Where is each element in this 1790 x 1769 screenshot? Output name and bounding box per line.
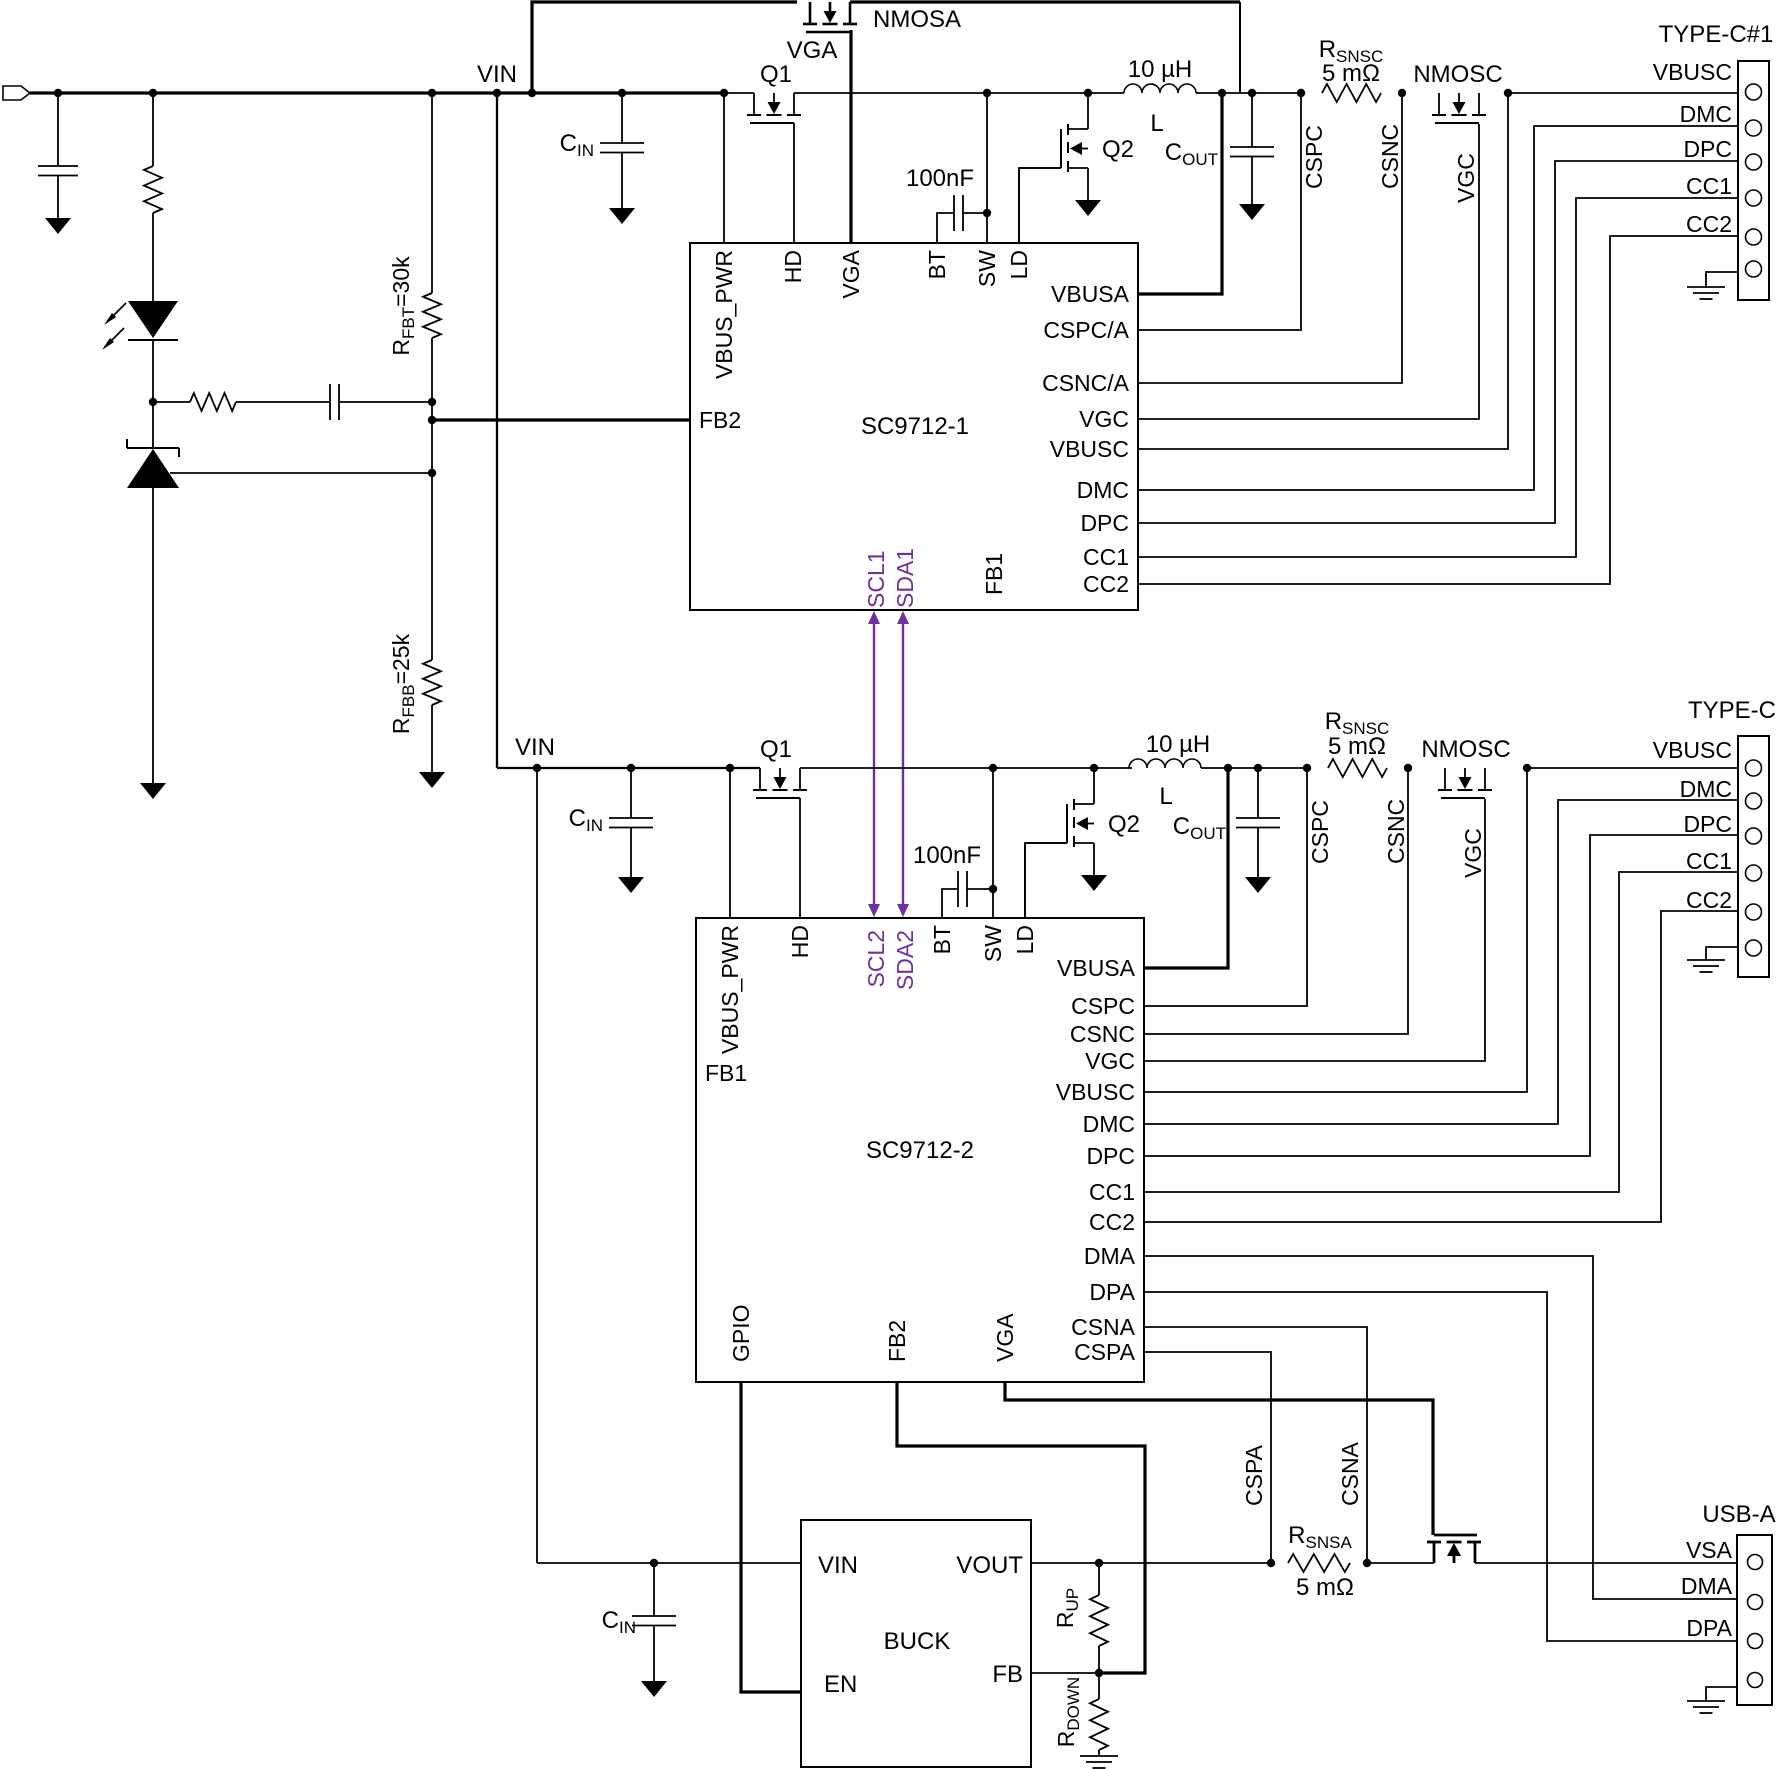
svg-text:CSNA: CSNA	[1071, 1314, 1136, 1340]
svg-text:VGA: VGA	[838, 249, 864, 298]
svg-text:FB2: FB2	[884, 1320, 910, 1362]
wire GPIO to EN	[741, 1382, 801, 1692]
svg-text:NMOSC: NMOSC	[1421, 736, 1510, 763]
wire VBUS_PWR pin stage-1	[723, 93, 725, 243]
connector USB-A	[1737, 1535, 1772, 1705]
svg-text:DPA: DPA	[1089, 1279, 1135, 1305]
wire VBUSA riser stage-2	[1224, 764, 1232, 772]
svg-text:CC1: CC1	[1083, 544, 1129, 570]
capacitor CIN stage-1	[621, 93, 623, 143]
svg-text:TYPE-C#1: TYPE-C#1	[1659, 21, 1774, 48]
svg-text:SC9712-1: SC9712-1	[861, 413, 969, 440]
svg-text:5 mΩ: 5 mΩ	[1328, 733, 1386, 760]
connector TYPE-C#1	[1738, 61, 1769, 300]
node CSNC tap stage-1	[1398, 89, 1406, 97]
svg-text:FB: FB	[992, 1661, 1023, 1688]
node VBUS_PWR tap stage-1	[720, 89, 728, 97]
svg-text:FB1: FB1	[705, 1060, 747, 1086]
svg-text:DMA: DMA	[1084, 1243, 1136, 1269]
capacitor RC compensation	[329, 384, 331, 420]
svg-text:FB2: FB2	[699, 407, 741, 433]
node CSNC tap stage-2	[1404, 764, 1412, 772]
wire VBUSC to connector stage-2	[1527, 767, 1738, 769]
wire FB pin	[1031, 1672, 1099, 1674]
node SW cap junction	[983, 209, 991, 217]
LED light arrows	[107, 303, 126, 322]
svg-text:VIN: VIN	[818, 1552, 858, 1579]
wire VBUSC to connector	[1508, 92, 1738, 94]
capacitor 100nF stage-1	[953, 195, 955, 231]
svg-text:VOUT: VOUT	[956, 1552, 1023, 1579]
wire CC1 stage-1	[1138, 198, 1738, 557]
svg-text:CC2: CC2	[1089, 1209, 1135, 1235]
wire TL431 ref	[170, 472, 432, 474]
resistor RFBT=30k	[428, 89, 436, 97]
wire DPA to USB-A	[1144, 1292, 1737, 1641]
wire VGC riser stage-2	[1144, 799, 1485, 1061]
svg-text:VGA: VGA	[787, 37, 838, 64]
svg-text:EN: EN	[824, 1671, 857, 1698]
svg-text:VBUSC: VBUSC	[1653, 59, 1732, 85]
svg-text:CC2: CC2	[1083, 571, 1129, 597]
wire SDA bus arrow	[902, 622, 904, 906]
wire VBUS_PWR pin stage-2	[729, 768, 731, 918]
svg-text:CC2: CC2	[1686, 211, 1732, 237]
wire DPC stage-2	[1144, 835, 1738, 1156]
wire to NMOS A	[1367, 1562, 1434, 1564]
wire SW pin stage-1	[986, 93, 988, 243]
svg-text:VGC: VGC	[1085, 1048, 1135, 1074]
svg-text:BT: BT	[929, 925, 955, 954]
node RUP top	[1095, 1559, 1103, 1567]
op-amp U2 SC9712-2	[696, 918, 1144, 1382]
svg-text:LD: LD	[1006, 250, 1032, 279]
svg-text:5 mΩ: 5 mΩ	[1296, 1574, 1354, 1601]
svg-text:VGC: VGC	[1453, 153, 1479, 203]
svg-text:VBUSC: VBUSC	[1653, 737, 1732, 763]
wire DMC stage-2	[1144, 800, 1738, 1124]
wire VSA to USB-A	[1475, 1562, 1737, 1564]
ground	[641, 1681, 667, 1697]
resistor LED series	[152, 93, 154, 166]
svg-text:CC2: CC2	[1686, 887, 1732, 913]
node COUT1 junction	[1248, 89, 1256, 97]
input terminal	[3, 86, 30, 100]
svg-text:CC1: CC1	[1686, 848, 1732, 874]
svg-text:L: L	[1150, 110, 1163, 137]
connector TYPE-C	[1738, 736, 1769, 977]
wire CC2 stage-2	[1144, 911, 1738, 1222]
svg-text:DPC: DPC	[1683, 136, 1732, 162]
wire DPC stage-1	[1138, 161, 1738, 523]
wire VBUSC riser stage-1	[1138, 93, 1508, 449]
wire VGA to NMOS gate	[1005, 1382, 1433, 1535]
node FB divider top	[428, 398, 436, 406]
svg-text:10 µH: 10 µH	[1146, 731, 1211, 758]
svg-text:DPC: DPC	[1080, 510, 1129, 536]
wire LD pin stage-2	[1025, 843, 1067, 918]
svg-text:DMA: DMA	[1681, 1573, 1733, 1599]
svg-text:DMC: DMC	[1083, 1111, 1135, 1137]
svg-text:RFBB=25k: RFBB=25k	[388, 633, 418, 734]
wire SW pin stage-2	[992, 768, 994, 918]
ground	[1245, 877, 1271, 893]
resistor RSNSC stage-2 5mOhm	[1328, 759, 1387, 777]
svg-text:VBUS_PWR: VBUS_PWR	[717, 925, 743, 1054]
capacitor COUT stage-2	[1257, 768, 1259, 818]
ground	[618, 877, 644, 893]
wire BT pin stage-1	[937, 213, 954, 243]
wire LD pin stage-1	[1019, 168, 1061, 243]
wire CSNC riser stage-2	[1144, 768, 1408, 1034]
svg-text:100nF: 100nF	[913, 842, 981, 869]
svg-text:SCL1: SCL1	[863, 550, 889, 608]
svg-text:CSNC: CSNC	[1377, 124, 1403, 189]
transistor NMOSA usb	[1433, 1542, 1436, 1563]
wire BT pin stage-2	[942, 889, 958, 918]
svg-text:L: L	[1159, 783, 1172, 810]
transistor NMOSC stage-1	[1438, 93, 1440, 115]
node BUCK feed tap	[533, 764, 541, 772]
inductor L 10uH stage-1	[1124, 84, 1196, 93]
svg-text:VBUSC: VBUSC	[1056, 1079, 1135, 1105]
svg-text:LD: LD	[1012, 925, 1038, 954]
svg-text:CSPC: CSPC	[1307, 800, 1333, 864]
svg-text:CSNC: CSNC	[1383, 799, 1409, 864]
resistor RDOWN	[1098, 1673, 1100, 1699]
svg-text:DMC: DMC	[1077, 477, 1129, 503]
svg-text:DPC: DPC	[1683, 811, 1732, 837]
wire FB2 to SC9712-1	[432, 418, 690, 421]
svg-text:Q1: Q1	[760, 736, 792, 763]
block BUCK converter	[801, 1520, 1031, 1767]
svg-text:DMC: DMC	[1680, 101, 1732, 127]
wire DMA to USB-A	[1144, 1256, 1737, 1599]
svg-text:10 µH: 10 µH	[1128, 56, 1193, 83]
svg-text:CSNA: CSNA	[1337, 1441, 1363, 1506]
svg-text:TYPE-C: TYPE-C	[1688, 697, 1776, 724]
wire CC2 stage-1	[1138, 236, 1738, 584]
node VBUSC junction stage-2	[1523, 764, 1531, 772]
node CSNA junction	[1363, 1559, 1371, 1567]
svg-text:VGC: VGC	[1079, 406, 1129, 432]
svg-text:NMOSC: NMOSC	[1413, 61, 1502, 88]
wire SCL bus arrow	[873, 622, 875, 906]
node LED branch junction	[149, 89, 157, 97]
node CSPC tap stage-2	[1303, 764, 1311, 772]
svg-text:Q1: Q1	[760, 61, 792, 88]
resistor RUP	[1098, 1563, 1100, 1595]
svg-text:CSPA: CSPA	[1074, 1339, 1136, 1365]
svg-text:VSA: VSA	[1686, 1537, 1733, 1563]
wire VIN to BUCK	[537, 1562, 801, 1564]
transistor NMOSC stage-2	[1444, 768, 1446, 790]
wire CSPC riser stage-1	[1138, 93, 1301, 330]
svg-text:SDA1: SDA1	[892, 548, 918, 608]
wire VIN rail stage-1	[30, 91, 725, 94]
node TL431 ref junction	[428, 469, 436, 477]
svg-text:DMC: DMC	[1680, 776, 1732, 802]
node FB junction	[1095, 1669, 1103, 1677]
svg-text:CSNC/A: CSNC/A	[1042, 370, 1130, 396]
svg-text:VBUSA: VBUSA	[1057, 955, 1136, 981]
svg-text:GPIO: GPIO	[728, 1304, 754, 1362]
svg-text:VGA: VGA	[992, 1313, 1018, 1362]
transistor Q1 stage-1	[753, 93, 755, 115]
transistor Q1 stage-2	[759, 768, 761, 790]
resistor RSNSA 5mOhm	[1288, 1554, 1350, 1572]
node input cap junction	[54, 89, 62, 97]
transistor Q2 stage-2	[1066, 804, 1068, 843]
svg-text:FB1: FB1	[981, 553, 1007, 595]
wire VBUSC riser stage-2	[1144, 768, 1527, 1092]
ground TYPE-C#2	[1706, 947, 1738, 960]
node Q2 drain junction stage-2	[1090, 764, 1098, 772]
svg-text:5 mΩ: 5 mΩ	[1322, 60, 1380, 87]
svg-text:CSPA: CSPA	[1241, 1444, 1267, 1506]
transistor Q2 stage-1	[1060, 129, 1062, 168]
node VBUSC junction stage-1	[1504, 89, 1512, 97]
svg-text:CSPC: CSPC	[1071, 993, 1135, 1019]
svg-text:100nF: 100nF	[906, 165, 974, 192]
node CIN2 junction	[627, 764, 635, 772]
ground	[140, 783, 166, 799]
svg-text:SCL2: SCL2	[863, 930, 889, 988]
svg-text:VIN: VIN	[477, 61, 517, 88]
svg-text:CC1: CC1	[1089, 1179, 1135, 1205]
capacitor input filter	[57, 93, 59, 166]
node CIN3 junction	[650, 1559, 658, 1567]
op-amp U1 SC9712-1	[690, 243, 1138, 610]
resistor RSNSC stage-1 5mOhm	[1322, 84, 1381, 102]
svg-text:VBUSA: VBUSA	[1051, 281, 1130, 307]
svg-text:USB-A: USB-A	[1702, 1501, 1775, 1528]
ground USB-A	[1706, 1687, 1737, 1701]
wire CSNC riser stage-1	[1138, 93, 1402, 383]
capacitor CIN stage-2	[630, 768, 632, 818]
svg-text:VBUSC: VBUSC	[1050, 436, 1129, 462]
wire CC1 stage-2	[1144, 872, 1738, 1192]
svg-text:DPA: DPA	[1686, 1615, 1732, 1641]
resistor RFBB=25k	[431, 473, 433, 660]
node VBUS_PWR tap stage-2	[726, 764, 734, 772]
wire CSNA	[1144, 1327, 1367, 1563]
node COUT2 junction	[1254, 764, 1262, 772]
node SW cap junction stage-2	[989, 885, 997, 893]
svg-text:VIN: VIN	[515, 734, 555, 761]
svg-text:CSPC: CSPC	[1301, 125, 1327, 189]
resistor RC compensation	[153, 401, 190, 403]
node top bus tap	[528, 89, 536, 97]
svg-text:VBUS_PWR: VBUS_PWR	[711, 250, 737, 379]
LED indicator	[128, 301, 178, 338]
svg-text:CSNC: CSNC	[1070, 1021, 1135, 1047]
wire VOUT	[1031, 1562, 1271, 1564]
wire CSPC riser stage-2	[1144, 768, 1307, 1006]
svg-text:SC9712-2: SC9712-2	[866, 1137, 974, 1164]
wire FB2 to FB divider	[897, 1382, 1145, 1673]
node Q2 drain junction stage-1	[1084, 89, 1092, 97]
capacitor COUT stage-1	[1251, 93, 1253, 147]
svg-text:VGC: VGC	[1460, 828, 1486, 878]
svg-text:HD: HD	[780, 250, 806, 283]
node LED cathode / RC junction	[149, 398, 157, 406]
ground	[609, 208, 635, 224]
wire VIN rail stage-2	[497, 767, 760, 769]
wire VGC riser stage-1	[1138, 124, 1479, 419]
svg-text:BT: BT	[924, 250, 950, 279]
wire VBUSA riser stage-1	[1218, 89, 1226, 97]
wire DMC stage-1	[1138, 126, 1738, 490]
svg-text:RFBT=30k: RFBT=30k	[388, 256, 418, 356]
wire VIN down to stage-2	[496, 93, 498, 768]
transistor NMOSA	[809, 2, 812, 24]
wire CSPA	[1144, 1352, 1271, 1563]
svg-text:SW: SW	[974, 250, 1000, 287]
ground	[419, 772, 445, 788]
node CSPC tap stage-1	[1297, 89, 1305, 97]
ground	[45, 218, 71, 234]
svg-text:SW: SW	[980, 925, 1006, 962]
svg-text:DPC: DPC	[1086, 1143, 1135, 1169]
svg-text:SDA2: SDA2	[892, 930, 918, 990]
wire Q1 source to SW/inductor	[794, 92, 1124, 94]
svg-text:BUCK: BUCK	[884, 1628, 951, 1655]
node CIN1 junction	[618, 89, 626, 97]
shunt regulator TL431	[152, 402, 154, 448]
node VIN drop	[493, 89, 501, 97]
svg-text:Q2: Q2	[1102, 136, 1134, 163]
wire top bus to NMOSA	[532, 2, 797, 93]
ground TYPE-C#1	[1706, 272, 1738, 287]
node FB2 tap	[428, 416, 436, 424]
ground	[1239, 204, 1265, 220]
svg-text:HD: HD	[787, 925, 813, 958]
svg-text:NMOSA: NMOSA	[873, 6, 961, 33]
capacitor CIN BUCK	[653, 1563, 655, 1616]
capacitor 100nF stage-2	[957, 871, 959, 907]
svg-text:Q2: Q2	[1108, 811, 1140, 838]
inductor L 10uH stage-2	[1129, 759, 1201, 768]
wire VIN down to BUCK	[536, 768, 538, 1563]
node CSPA junction	[1267, 1559, 1275, 1567]
svg-text:CC1: CC1	[1686, 173, 1732, 199]
ground RDOWN	[1080, 1755, 1118, 1757]
svg-text:CSPC/A: CSPC/A	[1043, 317, 1129, 343]
